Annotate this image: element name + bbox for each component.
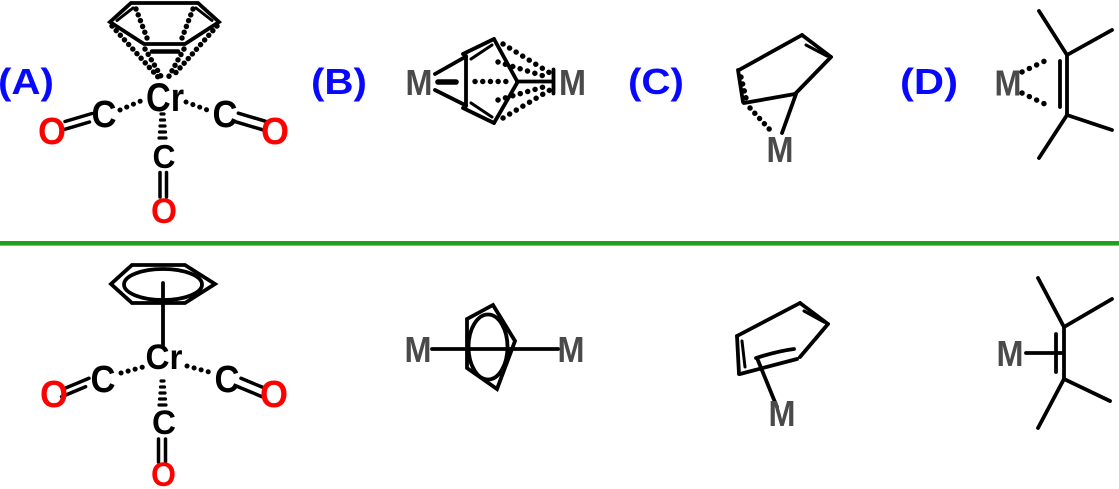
Cp ring edge C-D C-bottom [800, 324, 828, 357]
C=O double bond bottom A-bottom [159, 439, 166, 462]
M bond stub dash B-top [438, 79, 456, 85]
bond M to alkene D-bottom [1026, 351, 1063, 355]
double bond inner upper-left B-top [471, 45, 492, 59]
hashed bond Cr-C right A-top [186, 102, 210, 111]
ring upper-right edge B-top [494, 39, 517, 81]
C=O double bond bottom A-top [160, 173, 167, 198]
benzene ring (perspective hexagon) A-top [110, 3, 219, 44]
svg-text:M: M [769, 393, 796, 434]
svg-text:M: M [559, 62, 586, 103]
C=O double bond right A-bottom [238, 378, 265, 396]
dotted from front-bottom carbon [498, 86, 547, 100]
Cp left edge C-bottom [737, 336, 739, 374]
ring upper-left edge B-top [463, 39, 494, 54]
svg-text:O: O [40, 374, 68, 416]
Cp ring edge B-C C-top [802, 35, 831, 57]
methyl down-right D-bottom [1064, 379, 1110, 401]
C=C main line D-bottom [1062, 327, 1066, 379]
svg-text:O: O [261, 111, 289, 153]
methyl down-left D-bottom [1038, 379, 1064, 428]
svg-text:M: M [558, 329, 585, 370]
hapto dotted bonds ring->Cr A-top [112, 9, 217, 78]
benzene hexagon A-bottom [111, 265, 215, 303]
bond M-ring-M B-bottom [432, 347, 558, 351]
svg-text:(D): (D) [900, 61, 958, 102]
svg-text:(B): (B) [311, 61, 367, 102]
Cp ring edge A-B C-top [739, 35, 802, 70]
svg-text:C: C [153, 138, 176, 175]
svg-text:C: C [152, 404, 176, 442]
benzene double bond inner line top-right [196, 8, 212, 21]
dotted row middle [475, 79, 507, 84]
dotted bonds M-alkene D-top [1022, 58, 1051, 107]
dotted hapto bonds to M C-top [741, 77, 771, 131]
Cp ring left edge E-A C-top [738, 70, 743, 102]
methyl up-right D-bottom [1064, 299, 1112, 327]
C=O double bond left A-bottom [62, 378, 89, 396]
C=O double bond right A-top [236, 113, 266, 130]
ring lower-right edge B-top [494, 83, 517, 123]
Cp front edge (swoosh) D-E C-bottom [756, 349, 794, 358]
benzene hexagon (edge-on) B-bottom [467, 305, 515, 389]
dotted bond from top-right vertex (short) [182, 9, 193, 38]
sigma bond D-M C-top [782, 94, 796, 133]
hashed bond Cr-C bottom A-top (wedge dashes) [159, 114, 166, 138]
ring front edge B-top [464, 56, 468, 106]
centroid bond to Cr A-bottom [161, 283, 165, 345]
svg-text:M: M [995, 63, 1022, 104]
Cp bottom edge C-bottom [740, 359, 797, 374]
svg-text:M: M [405, 329, 432, 370]
benzene double bond inner line top-left [117, 8, 133, 21]
dotted hapto fan to right M B-top [475, 44, 550, 118]
Cp ring edge B-C C-bottom [800, 303, 828, 324]
svg-text:(C): (C) [628, 61, 684, 102]
svg-text:(A): (A) [0, 61, 54, 102]
green separator line [0, 241, 1119, 246]
dotted bond from right vertex [172, 26, 217, 77]
M-ring slant lower B-top [435, 90, 466, 106]
svg-text:C: C [91, 359, 116, 401]
svg-text:C: C [215, 359, 240, 401]
svg-text:M: M [767, 129, 794, 170]
svg-text:O: O [151, 456, 176, 489]
svg-text:C: C [92, 94, 117, 136]
methyl down-left D-top [1039, 115, 1067, 158]
ring lower-left edge B-top [463, 108, 494, 123]
dotted bond from left vertex [112, 26, 158, 77]
dotted from bottom vertex [503, 90, 550, 118]
benzene double bond inner bar bottom [152, 49, 178, 54]
svg-text:O: O [260, 374, 288, 416]
bond ring to right M B-top [517, 80, 552, 84]
dotted bond from bottom-left vertex [145, 49, 162, 78]
svg-text:M: M [406, 62, 433, 103]
Cp ring bottom edge D-E C-top [744, 94, 795, 103]
methyl up-left D-top [1039, 11, 1067, 55]
hashed bond Cr-C bottom A-bottom (wedge dashes) [159, 381, 166, 405]
tick bar at right M B-top [552, 70, 556, 94]
svg-text:O: O [151, 192, 177, 231]
dotted from top vertex [503, 44, 550, 73]
svg-text:M: M [997, 333, 1024, 374]
hashed bond Cr-C left A-bottom [121, 366, 209, 373]
methyl up-right D-top [1067, 30, 1112, 55]
svg-text:Cr: Cr [146, 338, 183, 377]
aromatic circle (ellipse) A-bottom [124, 269, 202, 300]
dotted bond from top-left vertex (short) [136, 9, 147, 38]
sigma bond E-M C-bottom [757, 358, 777, 407]
C=C inner line D-top [1058, 61, 1062, 107]
C=C inner line D-bottom [1054, 334, 1058, 372]
methyl up-left D-bottom [1038, 278, 1064, 327]
hashed bond Cr-C right A-bottom [187, 366, 209, 372]
C=O double bond left A-top [63, 114, 93, 131]
Cp ring edge A-B C-bottom [737, 303, 800, 336]
methyl down-right D-top [1067, 115, 1112, 130]
svg-text:C: C [213, 94, 238, 136]
double bond inner lower-left B-top [471, 103, 492, 117]
svg-text:O: O [38, 111, 66, 153]
double bond inner left C-bottom [742, 341, 745, 367]
hashed bond Cr-C left A-top [120, 100, 210, 111]
M-ring slant upper B-top [435, 57, 466, 75]
C=C main line D-top [1065, 55, 1069, 115]
double bond inner B-C C-bottom [804, 311, 824, 322]
Cp ring edge C-D C-top [796, 57, 831, 93]
dotted from front-top carbon [498, 62, 547, 77]
aromatic ellipse B-bottom [469, 315, 508, 380]
dotted bond from bottom-right vertex [168, 49, 184, 78]
double bond inner B-C C-top [806, 45, 827, 56]
